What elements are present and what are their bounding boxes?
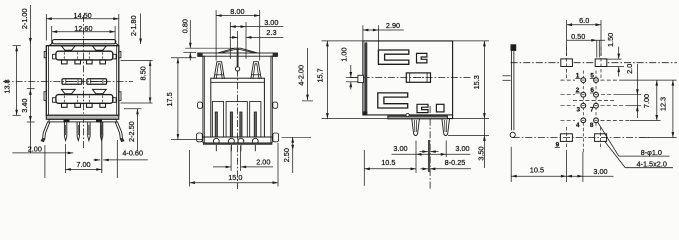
svg-text:3.00: 3.00 bbox=[455, 144, 469, 153]
dim 12.60 extension line left bbox=[51, 26, 53, 44]
dim 10.5 extension left view 4 bbox=[510, 147, 512, 182]
view 1 lower port opening ear right bbox=[113, 98, 116, 103]
svg-text:7.00: 7.00 bbox=[76, 160, 90, 169]
view 1 bent mount leg right foot bbox=[120, 138, 124, 141]
view 2 center rivet bbox=[236, 67, 240, 71]
dim 2.50 tick top view 2 bbox=[282, 136, 312, 138]
view 1 upper port opening ear left bbox=[53, 54, 56, 59]
view 3 dashed horizontal centerline bbox=[350, 77, 471, 79]
svg-text:2.90: 2.90 bbox=[386, 21, 400, 30]
dim 2.3 short extension bbox=[237, 31, 239, 48]
view 2 insulator body bbox=[211, 78, 265, 137]
dim 15.7 tick bottom bbox=[322, 118, 388, 120]
svg-text:13.8: 13.8 bbox=[3, 79, 12, 93]
svg-text:2.00: 2.00 bbox=[28, 144, 42, 153]
dim 3.00+3.00 dimension line view 3 bbox=[392, 153, 471, 155]
view 1 lid support wedge right bbox=[116, 43, 120, 45]
view 4 board edge pad 9 cap bbox=[511, 44, 517, 51]
dim 8.50 dimension line bbox=[149, 60, 151, 103]
dim 7.00 extension line left bbox=[64, 144, 66, 173]
view 1 side tab lower left bbox=[44, 92, 46, 101]
dim 15.3 tick bottom bbox=[453, 118, 489, 120]
dim 3.00 leader view 2 bbox=[246, 26, 283, 28]
dim 0.80 witness lower bbox=[189, 52, 191, 60]
view 1 upper port contact 4 centerline dash bbox=[102, 52, 104, 59]
dim 0.50 line bbox=[567, 39, 606, 41]
view 2 shield lid spring bump outer bbox=[218, 48, 258, 53]
view 2 pin 4 in slot bbox=[254, 112, 256, 137]
view 2 wing bump left lower bbox=[197, 133, 203, 142]
view 2 body bottom line bbox=[203, 136, 272, 138]
view 3 lower C window bbox=[378, 93, 408, 108]
svg-text:10.5: 10.5 bbox=[381, 158, 395, 167]
dim 12.3 dimension line bbox=[672, 80, 674, 138]
dim 2.0 dimension line view 4 bbox=[636, 64, 638, 118]
dim 15.3 dimension line bbox=[483, 41, 485, 119]
view 4 pad row 1 left dash bbox=[561, 79, 576, 81]
view 4 pin pad 1 bbox=[581, 78, 586, 83]
svg-text:6.0: 6.0 bbox=[579, 16, 589, 25]
svg-text:4-2.00: 4-2.00 bbox=[296, 65, 305, 86]
svg-text:3.50: 3.50 bbox=[477, 146, 486, 160]
svg-text:8.00: 8.00 bbox=[230, 7, 244, 16]
view 3 bottom flange bar bbox=[388, 116, 448, 119]
svg-text:8.50: 8.50 bbox=[139, 66, 148, 80]
view 2 pin slot 2 (wide) bbox=[226, 102, 247, 138]
dim 3.00 left extension view 3 bbox=[415, 141, 417, 158]
view 1 upper port latch dimple right bbox=[93, 46, 107, 50]
dim 15.7 tick top bbox=[322, 40, 363, 42]
view 2 pin 3 in slot bbox=[240, 112, 242, 137]
svg-text:8-0.25: 8-0.25 bbox=[445, 158, 466, 167]
dim 2.90 leader bbox=[378, 29, 403, 31]
leader line for 4-1.5x2.0 bbox=[605, 141, 626, 167]
view 2 pin slot 3 bbox=[250, 102, 261, 138]
dim 2.00 extension right view 2 bbox=[240, 146, 242, 171]
view 3 flange rivet bbox=[406, 114, 409, 117]
dim 1.00 witness upper bbox=[350, 65, 352, 78]
view 1 shield body outline bbox=[46, 46, 119, 116]
view 1 side tab lower right bbox=[119, 92, 121, 101]
view 4 pad column dashed centerline right bbox=[595, 71, 597, 129]
dim 0.80 tick upper bbox=[185, 47, 235, 49]
view 4 mount hole top-right bbox=[595, 59, 607, 67]
dim 8.00 extension left bbox=[215, 10, 217, 61]
view 4 pin pad 2 bbox=[581, 92, 586, 97]
svg-text:15.7: 15.7 bbox=[315, 68, 324, 82]
view 2 contact support foot left base tick bbox=[215, 74, 224, 76]
view 1 lower port contact 1 centerline dash bbox=[63, 96, 65, 103]
view 4 pad grid dashed centerline bbox=[573, 99, 614, 101]
dim 8.50 tick upper bbox=[121, 59, 153, 61]
view 1 bottom insulator bar bbox=[49, 119, 116, 122]
svg-text:7.00: 7.00 bbox=[642, 94, 651, 108]
view 4 bottom dashed centerline bbox=[513, 137, 649, 139]
view 1 lower port latch dimple left bbox=[61, 89, 75, 93]
dim 2.50 dimension line view 2 bbox=[292, 137, 294, 173]
svg-text:1.50: 1.50 bbox=[606, 33, 615, 47]
view 4 row 4 extension (dash then solid) bbox=[601, 120, 631, 122]
dim 7.00 dimension line view 4 bbox=[656, 80, 658, 120]
dim 8.50 tick lower bbox=[121, 102, 153, 104]
view 2 pin 2 solder foot bbox=[229, 138, 235, 144]
dim 2.00 arrow left view 2 bbox=[213, 166, 231, 168]
view 4 mount hole bottom-right bbox=[595, 134, 607, 142]
dim 0.50 witness pair bbox=[596, 40, 598, 57]
dim 3.00 leader view 4 bbox=[583, 175, 614, 177]
svg-text:7: 7 bbox=[590, 107, 594, 114]
view 4 row 2 extension (dash then solid) bbox=[601, 94, 614, 96]
dim 7.00 extension line right bbox=[101, 122, 103, 173]
view 3 dashed vertical centerline bbox=[429, 106, 431, 190]
view 2 shield plate end cap left bbox=[198, 53, 203, 57]
view 2 side wing left bbox=[203, 56, 204, 142]
view 2 pin 2 in slot bbox=[230, 112, 232, 137]
view 2 pin solder stubs below band bbox=[215, 145, 217, 151]
view 3 body outline bbox=[363, 41, 453, 119]
svg-text:0.50: 0.50 bbox=[571, 32, 585, 41]
svg-text:2.50: 2.50 bbox=[282, 148, 291, 162]
view 1 lower port contact 2 bbox=[75, 103, 81, 107]
view 1 insulator tab left bbox=[64, 119, 70, 122]
view 1 lower port contact 4 bbox=[100, 103, 106, 107]
dim 8-0.25 leader bbox=[430, 168, 471, 170]
view 1 middle latch window left bbox=[62, 79, 82, 85]
dim 2.90 extension left bbox=[362, 25, 364, 41]
view 3 mating face foot bbox=[363, 111, 367, 115]
view 2 wing bump left upper bbox=[198, 102, 203, 108]
view 1 upper port contact 4 bbox=[100, 60, 106, 64]
svg-text:12.60: 12.60 bbox=[74, 24, 92, 33]
dim 15.7 dimension line bbox=[326, 41, 328, 119]
dim 13.8 tick lower bbox=[13, 114, 21, 116]
dim 3.00 extension view 4 bbox=[582, 152, 584, 182]
svg-text:8-φ1.0: 8-φ1.0 bbox=[641, 148, 662, 157]
view 4 pin pad 3 bbox=[581, 103, 586, 108]
dim 6.0 dimension line bbox=[567, 24, 601, 26]
dim 4-2.00 tick bbox=[302, 100, 313, 102]
svg-text:0.80: 0.80 bbox=[181, 19, 190, 33]
view 2 pin 1 solder foot bbox=[213, 138, 219, 144]
dim 3.50 dimension line bbox=[483, 119, 485, 168]
dim 17.5 dimension line bbox=[177, 58, 179, 140]
svg-text:15.0: 15.0 bbox=[228, 173, 242, 182]
dim 2.90 dimension line bbox=[363, 29, 379, 31]
view 1 lower port contact 1 bbox=[62, 103, 68, 107]
view 1 shield top lid bbox=[52, 40, 116, 44]
svg-text:3.00: 3.00 bbox=[264, 18, 278, 27]
view 2 shield plate end cap right bbox=[273, 53, 278, 57]
view 1 upper port contact 2 bbox=[75, 60, 81, 64]
dim 4-2.00 witness line bbox=[307, 48, 309, 100]
dim 15.0 extension right bbox=[277, 143, 279, 187]
view 4 pad 9 slot break tick upper bbox=[503, 75, 511, 77]
view 3 pin crimp slot (0.25 feature) bbox=[427, 140, 429, 172]
dim 2.00 leader view 2 bbox=[241, 166, 273, 168]
view 1 upper port latch dimple left bbox=[61, 46, 75, 50]
dim 0.80 witness upper bbox=[189, 20, 191, 48]
view 3 side pad square (1.00 feature) bbox=[358, 75, 364, 82]
view 2 insulator body step line bbox=[211, 81, 265, 83]
dim 3.50 tick bottom bbox=[448, 134, 489, 136]
dim 3.00 extension right view 2 bbox=[245, 22, 247, 59]
dim 2-2.50 dimension line bbox=[137, 109, 139, 151]
view 4 mount hole top-right crosshair bbox=[600, 47, 602, 78]
view 1 lower port contact 3 bbox=[87, 103, 93, 107]
view 1 lower port latch dimple right bbox=[93, 89, 107, 93]
svg-text:10.5: 10.5 bbox=[530, 165, 544, 174]
view 1 pin 2 bbox=[77, 122, 79, 141]
dim 12.60 dimension line bbox=[52, 31, 115, 33]
svg-text:8: 8 bbox=[590, 122, 594, 129]
dim 13.8 dimension line bbox=[16, 46, 18, 116]
view 2 pin 4 solder foot bbox=[252, 138, 258, 144]
view 4 pad 9 slot break tick lower bbox=[503, 79, 511, 81]
svg-text:4-1.5x2.0: 4-1.5x2.0 bbox=[636, 160, 666, 169]
view 1 upper port opening bbox=[56, 51, 113, 60]
view 3 solder pin left bbox=[412, 119, 420, 136]
dim 8.00 dimension line bbox=[216, 15, 260, 17]
view 2 shield top plate bbox=[198, 53, 278, 56]
dim 1.50 witness upper bbox=[618, 47, 620, 60]
dim 3.00 right extension view 3 bbox=[445, 141, 447, 158]
dim 15.3 tick top bbox=[453, 40, 489, 42]
view 2 center rivet stem bbox=[237, 48, 239, 66]
view 1 lower port contact 4 centerline dash bbox=[102, 96, 104, 103]
dim 3.40 tick lower bbox=[27, 121, 35, 123]
view 2 pin slot 1 bbox=[212, 102, 223, 138]
view 4 mount hole top-left crosshair bbox=[566, 47, 568, 78]
view 2 wing bump right upper bbox=[273, 102, 278, 108]
view 1 lid support wedge left bbox=[49, 43, 53, 45]
view 4 pad row 2 left dash bbox=[561, 94, 576, 96]
view 4 mount hole top-left bbox=[561, 59, 573, 67]
dim 1.50 tick upper bbox=[604, 58, 622, 60]
svg-text:1.00: 1.00 bbox=[339, 47, 348, 61]
dim 14.50 dimension line bbox=[46, 18, 119, 20]
view 1 middle latch window right bbox=[87, 79, 107, 85]
svg-text:14.50: 14.50 bbox=[73, 11, 91, 20]
dim 2.00 extension left view 2 bbox=[230, 146, 232, 171]
dim 4-0.60 leader bbox=[103, 159, 148, 161]
dim 12.60 extension line right bbox=[114, 26, 116, 44]
view 1 pin 4 bbox=[100, 122, 102, 141]
dim 0.80 tick lower bbox=[183, 51, 196, 53]
svg-text:15.3: 15.3 bbox=[472, 75, 481, 89]
svg-text:2-1.80: 2-1.80 bbox=[129, 15, 138, 36]
view 1 upper port contact 1 centerline dash bbox=[63, 52, 65, 59]
dim 15.0 extension left bbox=[189, 150, 191, 187]
view 4 mount hole bottom-left crosshair bbox=[565, 127, 567, 149]
view 1 shield inner left edge bbox=[47, 46, 49, 116]
svg-text:3: 3 bbox=[577, 107, 581, 114]
view 4 board edge pad 9 slot lines bbox=[510, 51, 512, 130]
view 1 leg witness line left bbox=[44, 145, 46, 178]
dim 2.3 leader bbox=[246, 36, 283, 38]
svg-text:2-1.00: 2-1.00 bbox=[20, 8, 29, 29]
dim 10.5 dimension line view 4 bbox=[511, 175, 566, 177]
dim 1.50 tick lower bbox=[604, 66, 624, 68]
view 3 mid pin window bbox=[406, 73, 430, 82]
view 2 contact support foot right bbox=[251, 62, 261, 79]
view 1 pin 3 bbox=[88, 122, 90, 141]
view 4 pin pad 5 bbox=[594, 78, 599, 83]
view 4 pad column dashed centerline left bbox=[582, 71, 584, 129]
view 4 dashed mount centerline bbox=[511, 62, 677, 64]
view 1 insulator tab right bbox=[96, 119, 102, 122]
dim 3.00 dimension line view 2 bbox=[230, 26, 246, 28]
view 1 pin 1 bbox=[64, 122, 66, 141]
dim 2-2.50 tick bbox=[124, 108, 142, 110]
dim 3.00 extension left view 2 bbox=[229, 22, 231, 59]
view 2 bottom band bbox=[203, 142, 272, 144]
dim 3.00+3.00 center arrows view 3 bbox=[420, 151, 428, 153]
view 4 pad 9 hole bbox=[510, 132, 515, 137]
svg-text:2.0: 2.0 bbox=[625, 64, 634, 74]
dim 13.8 tick upper bbox=[13, 45, 21, 47]
view 4 bottom hole row extension bbox=[640, 137, 677, 139]
view 1 bent mount leg right bbox=[115, 122, 122, 139]
view 3 mid pin window inner lines bbox=[409, 73, 411, 82]
view 4 pin pad 4 bbox=[581, 118, 586, 123]
view 4 pad row 4 left dash bbox=[561, 119, 576, 121]
view 2 pin 1 in slot bbox=[215, 112, 217, 137]
view 1 shield inner right edge bbox=[116, 46, 118, 116]
dim 1.00 tick lower bbox=[346, 81, 358, 83]
svg-text:12.3: 12.3 bbox=[659, 97, 668, 111]
view 4 pad row 3 left dash bbox=[561, 105, 576, 107]
view 1 side tab left bbox=[44, 52, 46, 58]
svg-text:17.5: 17.5 bbox=[165, 92, 174, 106]
view 1 front: dashed horizontal centerline bbox=[3, 80, 133, 82]
view 4 row 1 extension (dash then solid) bbox=[601, 79, 623, 81]
dim 2.3 arrow left bbox=[230, 36, 238, 38]
dim 4-0.60 arrow left bbox=[94, 159, 101, 161]
view 1 side tab right bbox=[119, 52, 121, 58]
view 1 lower port contact 3 centerline dash bbox=[88, 96, 90, 103]
svg-text:4-0.60: 4-0.60 bbox=[122, 148, 143, 157]
dim 6.0 extension left bbox=[566, 20, 568, 56]
dim 2.00 leader line view 1 bbox=[12, 152, 73, 154]
dim 2.90 extension right bbox=[377, 25, 379, 50]
view 4 mount hole bottom-left bbox=[560, 134, 572, 142]
svg-text:3.40: 3.40 bbox=[20, 98, 29, 112]
view 3 solder pin right bbox=[442, 119, 450, 136]
dim 3.40 tick upper bbox=[27, 88, 35, 90]
view 4 pin pad 6 bbox=[594, 92, 599, 97]
dim 6.0 extension right bbox=[600, 20, 602, 56]
dim 1.50 witness lower bbox=[618, 67, 620, 77]
dim 3.00 arrows view 4 bbox=[566, 175, 583, 177]
svg-text:3.00: 3.00 bbox=[593, 167, 607, 176]
view 1 lower port contact 2 centerline dash bbox=[77, 96, 79, 103]
dim 10.5 dimension line view 3 bbox=[364, 168, 416, 170]
dim 1.00 tick upper bbox=[346, 77, 358, 79]
svg-text:2.3: 2.3 bbox=[266, 28, 276, 37]
view 1 upper port contact 3 centerline dash bbox=[88, 52, 90, 59]
view 1 upper port contact 1 bbox=[62, 60, 68, 64]
view 3 upper C window bbox=[378, 50, 408, 64]
view 4 pin pad 8 bbox=[594, 118, 599, 123]
view 2 wing bump right lower bbox=[273, 133, 279, 142]
dim 17.5 tick bottom bbox=[171, 139, 202, 141]
dim 14.50 extension line left bbox=[45, 14, 47, 41]
view 1 upper port contact 3 bbox=[87, 60, 93, 64]
view 3 upper small c window bbox=[417, 53, 427, 63]
view 1 bottom flange bar bbox=[46, 115, 119, 119]
view 1 upper port opening ear right bbox=[113, 54, 116, 59]
view 2 contact support foot left bbox=[214, 62, 224, 79]
dim 10.5 extension left view 3 bbox=[363, 150, 365, 186]
leader line for 8-dia-1.0 bbox=[598, 122, 619, 156]
dim 1.00 witness lower bbox=[350, 82, 352, 90]
dim 7.00 dimension line bbox=[65, 168, 101, 170]
view 1 middle latch window left inner dash bbox=[66, 81, 77, 83]
view 1 bent mount leg left bbox=[43, 122, 50, 139]
dim 17.5 tick top bbox=[171, 57, 196, 59]
svg-text:2-2.50: 2-2.50 bbox=[127, 121, 136, 142]
dim 2-1.00 / 3.40 shared witness line bbox=[29, 5, 31, 153]
view 2 side wing right bbox=[271, 56, 272, 142]
dim 15.0 dimension line bbox=[190, 182, 279, 184]
dim 14.50 extension line right bbox=[118, 14, 120, 45]
view 2 dashed vertical centerline bbox=[237, 57, 239, 189]
view 2 pin 3 solder foot bbox=[238, 138, 244, 144]
dim 8-0.25 arrow left bbox=[420, 168, 428, 170]
svg-text:4: 4 bbox=[576, 122, 580, 129]
view 3 lower small c window bbox=[417, 104, 428, 112]
view 1 upper port contact 2 centerline dash bbox=[77, 52, 79, 59]
dim 8.00 extension right bbox=[259, 10, 261, 61]
view 4 mount hole bottom-right crosshair bbox=[600, 127, 602, 149]
dim 10.5 extension mid view 4 bbox=[565, 150, 567, 182]
svg-text:3.00: 3.00 bbox=[393, 144, 407, 153]
view 1 lower port opening bbox=[56, 95, 113, 104]
view 1 front: dashed vertical centerline bbox=[83, 15, 85, 148]
view 1 lower port opening ear left bbox=[53, 98, 56, 103]
svg-text:2.00: 2.00 bbox=[256, 158, 270, 167]
dim 2-1.80 witness line bbox=[140, 14, 142, 45]
view 2 contact support foot right base tick bbox=[251, 74, 260, 76]
view 4 pin pad 7 bbox=[594, 103, 599, 108]
view 2 shield lid spring bump inner bbox=[221, 50, 255, 54]
view 3 shield mating face (thick) bbox=[364, 42, 367, 115]
view 3 lower small square window bbox=[436, 104, 444, 112]
view 1 middle latch window right inner dash bbox=[90, 81, 102, 83]
view 1 bent mount leg left foot bbox=[41, 138, 45, 141]
view 4 row 3 extension (dash then solid) bbox=[601, 105, 629, 107]
view 1 leg witness line right bbox=[116, 140, 118, 178]
